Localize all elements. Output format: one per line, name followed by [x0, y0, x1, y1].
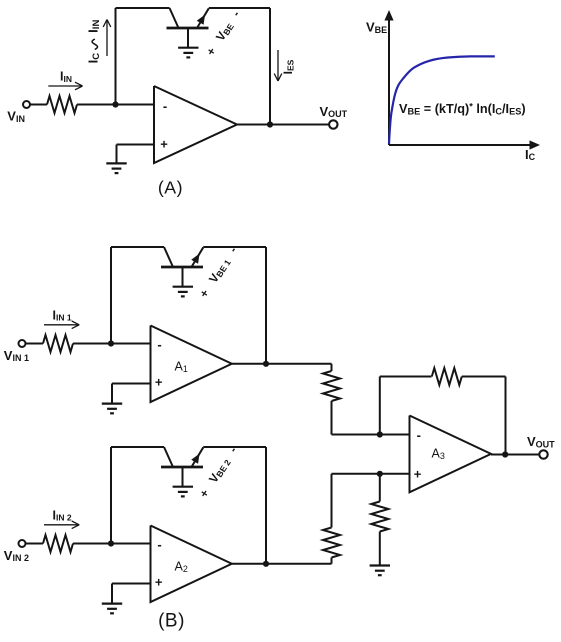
svg-text:-: -: [417, 428, 421, 443]
svg-text:+: +: [414, 466, 422, 481]
svg-text:+: +: [160, 136, 168, 151]
svg-text:-: -: [157, 537, 161, 552]
svg-text:-: -: [157, 337, 161, 352]
svg-text:-: -: [163, 98, 167, 113]
svg-text:+: +: [155, 575, 163, 590]
svg-text:(B): (B): [158, 611, 185, 632]
svg-text:(A): (A): [158, 178, 183, 198]
svg-text:+: +: [155, 375, 163, 390]
